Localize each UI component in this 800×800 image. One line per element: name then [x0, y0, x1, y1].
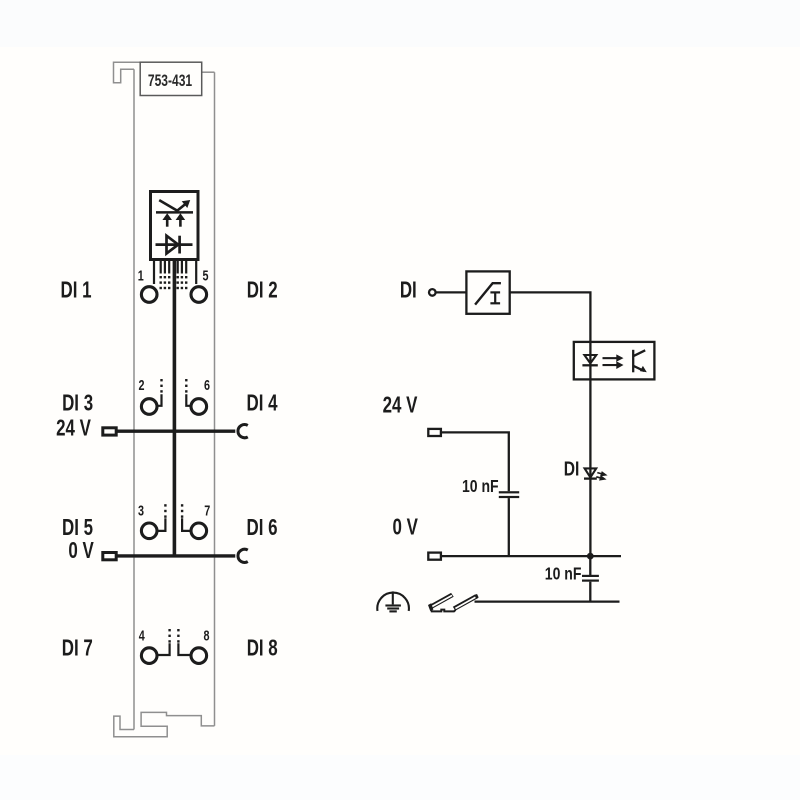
ground rail wire — [475, 600, 620, 602]
terminal 8 — [191, 648, 207, 664]
svg-text:2: 2 — [138, 376, 144, 393]
LED block: diagonal line — [159, 200, 178, 211]
svg-text:7: 7 — [204, 502, 210, 519]
LED block: up arrow left — [162, 213, 172, 226]
svg-text:DI 4: DI 4 — [246, 390, 278, 416]
24V jumper contact arc — [238, 425, 248, 438]
internal bus wire (thick center vertical) — [173, 260, 177, 557]
svg-text:1: 1 — [138, 267, 144, 284]
capacitor C2 10nF — [582, 575, 599, 582]
module top profile with mounting hook — [114, 62, 215, 82]
svg-text:DI 8: DI 8 — [247, 635, 278, 661]
svg-text:5: 5 — [202, 267, 208, 284]
terminal 7 — [191, 523, 207, 539]
terminal 3 — [141, 523, 157, 539]
module body outline (left/right gray edges) — [134, 69, 215, 729]
filter box ramp symbol — [475, 283, 501, 304]
wire capacitor C1 to 0V rail — [508, 498, 510, 556]
0V rail wire — [441, 555, 621, 557]
svg-text:24 V: 24 V — [383, 392, 418, 418]
filter box I symbol — [490, 292, 500, 303]
wire DI terminal to filter box — [436, 291, 466, 293]
DIN rail symbol — [429, 593, 478, 611]
0V jumper contact arc — [238, 549, 248, 562]
svg-text:DI 6: DI 6 — [246, 514, 277, 540]
svg-text:10 nF: 10 nF — [545, 564, 582, 584]
svg-text:0 V: 0 V — [68, 537, 94, 563]
0V terminal square right — [428, 553, 441, 560]
order number box 753-431 — [140, 62, 202, 95]
svg-text:24 V: 24 V — [56, 415, 91, 441]
terminal 6 stub wire — [186, 394, 190, 406]
svg-text:8: 8 — [203, 627, 209, 644]
0V field terminal square — [103, 553, 116, 560]
wire filter box to optocoupler — [510, 292, 591, 342]
LED block: up arrow right — [176, 213, 186, 226]
terminal 4 — [141, 648, 157, 664]
terminal 7 stub wire — [182, 518, 191, 531]
svg-text:6: 6 — [204, 376, 210, 393]
optocoupler phototransistor — [633, 350, 645, 373]
terminal 4 stub wire — [157, 643, 169, 655]
svg-text:4: 4 — [139, 627, 146, 644]
LED block: diagonal arrow up-right — [176, 200, 190, 212]
svg-text:DI 1: DI 1 — [60, 277, 91, 303]
LED block: horizontal bar — [156, 211, 193, 214]
LED light emission arrows — [596, 472, 605, 479]
terminal 6 — [191, 399, 207, 415]
junction node dot — [587, 553, 594, 560]
24V field terminal square — [103, 428, 116, 435]
terminal 2 stub wire — [158, 394, 162, 406]
wire 24V to capacitor C1 — [441, 432, 509, 491]
optocoupler wire through — [589, 342, 591, 380]
svg-text:0 V: 0 V — [393, 514, 419, 540]
terminal 3 stub wire — [157, 518, 166, 531]
svg-text:753-431: 753-431 — [148, 72, 192, 90]
optocoupler LED diode — [582, 355, 597, 365]
wire capacitor C2 to ground rail — [589, 582, 591, 602]
optocoupler box U3 — [574, 342, 655, 380]
0V power jumper bus — [117, 554, 236, 557]
terminal 8 stub wire — [178, 643, 190, 655]
comb dotted continuation — [160, 276, 188, 289]
terminal 5 — [191, 287, 207, 303]
functional earth symbol — [377, 591, 409, 611]
svg-text:3: 3 — [138, 502, 144, 519]
status LED DI — [584, 468, 597, 478]
terminal 2 — [141, 399, 157, 415]
svg-text:DI 2: DI 2 — [247, 277, 278, 303]
svg-text:10 nF: 10 nF — [462, 477, 499, 497]
24V power jumper bus — [117, 430, 236, 433]
svg-text:DI 3: DI 3 — [62, 390, 93, 416]
input filter box U2 — [466, 271, 509, 313]
DIN rail end caps — [428, 594, 479, 611]
LED block: diode D1 — [156, 236, 193, 254]
terminal 1 — [141, 287, 157, 303]
module bottom foot profile (DIN rail clip) — [114, 712, 215, 736]
DI input terminal circle — [429, 289, 436, 296]
svg-text:DI: DI — [564, 458, 580, 480]
internal wire comb below LED block — [154, 260, 196, 285]
status LED block U1 — [151, 192, 199, 260]
optocoupler light arrows — [603, 354, 624, 369]
svg-text:DI: DI — [400, 277, 417, 303]
capacitor C1 10nF — [499, 491, 519, 498]
wire optocoupler to 0V junction — [589, 379, 591, 556]
24V terminal square right — [428, 429, 441, 436]
wire junction to capacitor C2 — [589, 556, 591, 575]
svg-text:DI 7: DI 7 — [62, 635, 93, 661]
